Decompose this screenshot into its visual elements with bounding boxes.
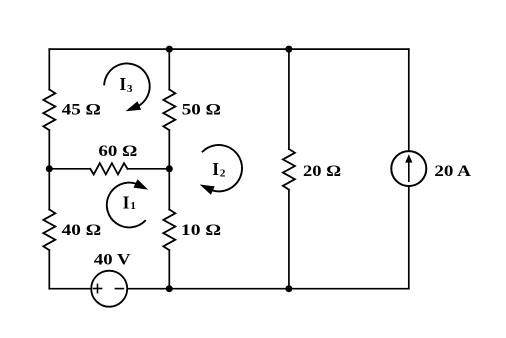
label I3 <box>119 74 133 95</box>
svg-text:3: 3 <box>127 83 133 95</box>
svg-text:I: I <box>212 159 219 179</box>
svg-text:40 Ω: 40 Ω <box>62 222 102 239</box>
node bottom 20-ohm junction <box>285 285 292 292</box>
svg-text:45 Ω: 45 Ω <box>62 101 101 118</box>
wire center horizontal right (60 ohm to node B) <box>128 168 170 170</box>
resistor 10 Ohm <box>163 210 175 251</box>
voltage source 40 V (circle) <box>91 271 127 307</box>
svg-text:I: I <box>119 74 126 94</box>
wire middle rail lower (10 ohm to bottom) <box>168 250 170 289</box>
current source arrow (points up) <box>405 154 412 181</box>
wire middle rail upper (top to 50 ohm) <box>168 49 170 89</box>
svg-text:2: 2 <box>220 168 226 180</box>
wire left rail lower (40 ohm to bottom) <box>48 250 50 289</box>
wire left rail upper (top to 45 ohm) <box>48 49 50 89</box>
wire middle rail center (50 ohm to 10 ohm) <box>168 130 170 209</box>
current source 20 A (circle) <box>391 151 426 186</box>
voltage source plus terminal <box>93 284 101 292</box>
svg-text:40 V: 40 V <box>94 252 131 269</box>
mesh current loop arrow I2 <box>200 145 242 195</box>
wire top rail <box>49 48 409 50</box>
label I2 <box>212 159 226 180</box>
node bottom-middle junction <box>166 285 173 292</box>
node B (center middle junction) <box>166 165 173 172</box>
resistor 50 Ohm <box>163 90 175 131</box>
wire 20-ohm branch lower <box>288 190 290 289</box>
resistor 45 Ohm <box>43 90 55 131</box>
mesh current loop arrow I1 <box>107 179 148 227</box>
node A (left middle junction) <box>46 165 53 172</box>
mesh current loop arrow I3 <box>104 63 150 111</box>
label I1 <box>123 193 136 213</box>
resistor 60 Ohm <box>90 163 127 174</box>
svg-text:10 Ω: 10 Ω <box>181 222 221 239</box>
wire bottom rail <box>49 288 409 290</box>
svg-text:I: I <box>123 193 130 213</box>
wire center horizontal left (node A to 60 ohm) <box>49 168 90 170</box>
wire right rail lower (current source to bottom) <box>408 186 410 289</box>
voltage source minus terminal <box>115 288 123 290</box>
wire left rail middle (45 ohm to 40 ohm) <box>48 130 50 209</box>
wire right rail upper (top to current source) <box>408 49 410 151</box>
node top-middle junction <box>166 46 173 53</box>
svg-text:20 Ω: 20 Ω <box>303 163 341 180</box>
resistor 20 Ohm <box>283 149 295 190</box>
svg-text:1: 1 <box>130 200 136 212</box>
wire 20-ohm branch upper <box>288 49 290 149</box>
resistor 40 Ohm <box>43 210 55 251</box>
svg-text:50 Ω: 50 Ω <box>182 101 221 118</box>
svg-text:60 Ω: 60 Ω <box>98 143 137 160</box>
node top 20-ohm junction <box>285 46 292 53</box>
svg-text:20 A: 20 A <box>434 163 471 180</box>
